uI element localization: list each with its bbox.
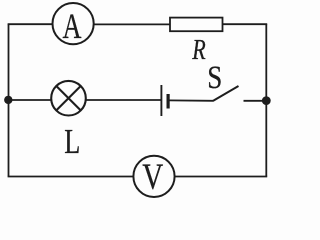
wire: left vertical (8, 24, 10, 176)
wire: bottom right segment (175, 176, 268, 178)
lamp L (51, 81, 86, 161)
wire: middle segment (battery to switch pivot) (170, 99, 214, 101)
node: left junction dot (4, 96, 12, 104)
wire: right vertical (265, 24, 267, 176)
ammeter A (53, 3, 94, 46)
svg-text:R: R (191, 34, 205, 66)
wire: top right segment (resistor to corner) (223, 23, 268, 25)
wire: bottom left segment (8, 176, 134, 178)
svg-text:S: S (207, 60, 222, 96)
svg-text:V: V (142, 157, 163, 198)
svg-text:L: L (64, 122, 80, 161)
node: right junction dot (262, 96, 271, 105)
wire: top left segment (8, 23, 52, 25)
wire: middle right segment (switch contact to right dot) (244, 100, 267, 102)
svg-text:A: A (63, 6, 82, 46)
resistor R (170, 18, 223, 66)
wire: middle left segment (dot to lamp) (8, 99, 50, 101)
battery cell (161, 85, 168, 116)
wire: middle segment (lamp to battery) (86, 99, 161, 101)
switch S (207, 60, 238, 101)
voltmeter V (133, 156, 174, 198)
wire: top middle segment (ammeter to resistor) (94, 23, 170, 25)
